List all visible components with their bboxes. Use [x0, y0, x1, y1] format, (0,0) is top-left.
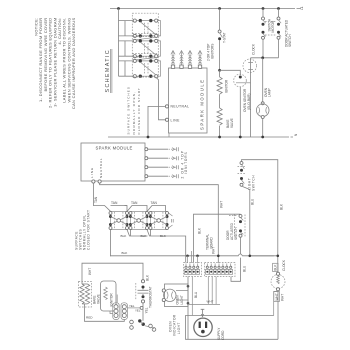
surface burner switch S2: [119, 39, 161, 58]
svg-text:VALVE: VALVE: [230, 118, 234, 128]
connector strip P1: [113, 303, 119, 320]
svg-text:SPARK MODULE: SPARK MODULE: [96, 146, 133, 151]
svg-text:LINE: LINE: [90, 167, 94, 178]
junction dot oven branch: [218, 69, 221, 72]
thermostat (lower): [136, 280, 149, 321]
svg-text:IGNITOR: IGNITOR: [225, 79, 229, 93]
svg-text:TAN: TAN: [94, 196, 98, 203]
wire M1 top chain: [111, 206, 128, 212]
svg-text:T-STAT: T-STAT: [223, 32, 227, 43]
svg-text:BOARD: BOARD: [209, 236, 213, 248]
svg-text:LIGHT: LIGHT: [177, 322, 181, 334]
ignitor module box: [101, 281, 117, 311]
notice text block: [34, 17, 77, 109]
wire M2-M3 bottom chain: [147, 230, 167, 237]
wire BLU light switch to clock: [243, 187, 278, 258]
wire BLU door switch to terminal board: [231, 237, 246, 281]
svg-text:CLOSED FOR START: CLOSED FOR START: [137, 87, 141, 135]
junction dot L1/oven column: [218, 7, 221, 10]
wires oven light to feed: [176, 291, 188, 301]
terminal board routing: [194, 214, 219, 262]
junction dot lamp/N: [261, 136, 264, 139]
label bake valve: [92, 294, 100, 304]
svg-text:BLK: BLK: [198, 227, 202, 234]
clock motor contact: [262, 9, 275, 58]
junction dot clock-motor branch: [262, 7, 265, 10]
label oven lamp (schematic): [264, 87, 272, 97]
svg-text:BLK: BLK: [160, 234, 167, 238]
svg-text:BLU: BLU: [194, 291, 198, 298]
svg-text:BLK: BLK: [141, 234, 148, 238]
junction dot L1-left: [117, 7, 120, 10]
junction dot glo-bar/N: [239, 136, 242, 139]
junction dot door-switch branch: [277, 7, 280, 10]
svg-text:NEUTRAL: NEUTRAL: [171, 105, 190, 109]
svg-text:WHT: WHT: [88, 268, 92, 275]
svg-text:BLK: BLK: [279, 203, 283, 210]
bake valve coils: [79, 282, 92, 308]
label light switch: [247, 175, 255, 191]
wire U1 box stub to N bus: [168, 133, 170, 137]
label oven light: [176, 295, 184, 305]
wire light switch feed BLK: [242, 160, 284, 273]
door actuated switch (lower): [229, 215, 245, 238]
svg-text:CLOSED FOR START: CLOSED FOR START: [87, 209, 91, 250]
label 2 or 4 top ignitors (middle): [180, 150, 188, 178]
svg-text:CORD: CORD: [221, 330, 225, 340]
svg-text:SWITCH: SWITCH: [234, 227, 238, 240]
svg-text:CLOCK: CLOCK: [282, 259, 286, 271]
node L1 bus: [110, 6, 304, 10]
svg-text:BLU: BLU: [242, 265, 246, 272]
wire clock assembly bottom: [251, 57, 279, 59]
svg-text:NEUTRAL: NEUTRAL: [99, 158, 103, 178]
svg-text:YEL: YEL: [135, 308, 141, 312]
label oven ignitor glo-bar: [243, 88, 251, 112]
svg-text:YEL: YEL: [129, 304, 135, 308]
wire S1 to S2: [137, 37, 157, 39]
wires below connector B: [208, 277, 216, 305]
svg-text:VALVE: VALVE: [96, 294, 100, 304]
wire M1-M2 bottom chain: [127, 230, 148, 237]
svg-text:LINE: LINE: [171, 118, 181, 122]
pin LINE of U1: [165, 118, 180, 122]
junction dot BLK/conn1b: [196, 255, 199, 258]
wire branch to glo-bar: [220, 70, 241, 75]
oven light box: [162, 284, 188, 307]
wire conn to plug area: [192, 277, 198, 316]
wire BLK bus (middle): [111, 251, 274, 256]
indicator connector pins: [130, 319, 156, 331]
clock motor (lower, dashed circle): [271, 272, 285, 291]
wire left bus: [118, 9, 120, 77]
svg-text:BLK: BLK: [274, 264, 278, 271]
svg-text:WHT: WHT: [207, 300, 214, 304]
dashed enclosure switch S3: [132, 54, 158, 78]
connector block A: [184, 263, 202, 277]
svg-text:CAN CAUSE IMPROPER AND DANGERO: CAN CAUSE IMPROPER AND DANGEROUS: [71, 17, 76, 109]
connector strip P2: [121, 303, 127, 320]
thermostat switch T-STAT: [218, 30, 226, 43]
junction dot neutral/N: [147, 136, 150, 139]
surface burner switch S1: [119, 19, 161, 38]
junction dot oven column/N: [218, 136, 221, 139]
wire BLK bake bus top: [82, 263, 143, 284]
wire lamp feed from connector: [187, 277, 189, 340]
supply cord box: [186, 316, 279, 340]
wire glo-bar to N bus: [250, 83, 252, 137]
spark module U1 (top): [169, 68, 208, 133]
spark module U2 (middle): [81, 143, 145, 181]
igniter output pins of U2: [145, 148, 148, 178]
label oven indicator light: [168, 314, 180, 336]
pin NEUTRAL of U2: [98, 180, 101, 183]
svg-text:(GLO-BAR): (GLO-BAR): [247, 94, 251, 110]
wire door switch feed: [218, 213, 240, 215]
wire WHT from U2 neutral to terminal board: [100, 183, 224, 263]
label 2 or 4 top ignitors (top): [206, 44, 214, 61]
dashed enclosure switch S1: [132, 13, 158, 37]
wire M3 bottom to connector: [167, 236, 186, 263]
wire M3 right stubs: [169, 213, 174, 228]
svg-text:THERMOSTAT: THERMOSTAT: [149, 286, 153, 308]
wire YEL to thermostat: [128, 304, 149, 314]
node N bus: [108, 133, 298, 137]
junction dot lamp branch: [261, 56, 264, 59]
resistor bake valve (schematic): [217, 108, 234, 137]
svg-text:CLOCK: CLOCK: [252, 43, 256, 55]
label surface switches (top): [127, 86, 142, 134]
surface switch unit M1 (middle): [109, 212, 129, 230]
wire WHT lower horizontal: [188, 300, 220, 305]
wire glo-bar B to N bus: [239, 87, 241, 137]
svg-text:SPARK MODULE: SPARK MODULE: [200, 78, 205, 130]
svg-text:SWITCH: SWITCH: [251, 175, 255, 191]
svg-text:WHT: WHT: [281, 294, 285, 301]
wire stack to spark module line: [156, 78, 165, 120]
svg-text:WHT: WHT: [275, 293, 279, 300]
wire M1 bottom to BLK drop: [110, 230, 112, 257]
igniter symbols (middle): [148, 147, 179, 178]
wire t-stat to junction: [219, 40, 221, 70]
surface switch unit M3 (middle): [149, 212, 169, 230]
wire oven column upper: [219, 9, 221, 31]
junction dot lamp feed lower: [187, 302, 190, 305]
igniter outputs of U1 (top): [171, 51, 202, 69]
label door actuated switch (lower): [226, 222, 238, 240]
svg-text:LAMP: LAMP: [268, 88, 272, 97]
wire M1-M2 top chain: [125, 206, 148, 212]
wire U1 neutral to N bus: [148, 106, 166, 137]
svg-text:SWITCH: SWITCH: [288, 34, 292, 47]
junction dot BLU/BLK: [277, 255, 280, 258]
oven lamp (schematic): [256, 102, 269, 137]
dashed circle oven ignitor element: [243, 58, 257, 83]
svg-text:TAN: TAN: [131, 201, 138, 205]
svg-text:SCHEMATIC: SCHEMATIC: [105, 49, 111, 93]
wire WHT from clock down: [274, 291, 285, 339]
surface switch unit M2 (middle): [129, 212, 149, 230]
wire ignitor stub: [110, 295, 117, 314]
junction dot BLK/WHT cross: [217, 255, 220, 258]
svg-text:IGNITORS: IGNITORS: [210, 44, 214, 59]
svg-text:MOTOR: MOTOR: [271, 20, 275, 33]
svg-text:IGNITORS: IGNITORS: [184, 151, 188, 174]
wire TAN from U2 line: [93, 183, 110, 211]
svg-text:RED: RED: [86, 316, 93, 320]
svg-text:TAN: TAN: [111, 201, 118, 205]
wire M2-M3 top chain: [147, 206, 166, 212]
label supply cord: [217, 327, 225, 340]
connector block B: [205, 263, 236, 277]
junction dot lamp feed upper: [187, 285, 190, 288]
wire stub conn1-a: [187, 256, 189, 263]
svg-text:NORMALLY OPEN,: NORMALLY OPEN,: [132, 91, 136, 135]
svg-text:SURFACE SWITCHES: SURFACE SWITCHES: [127, 86, 131, 134]
dashed enclosure switch S2: [132, 34, 158, 58]
wire lamp feed: [262, 58, 264, 102]
door actuated switch (schematic): [265, 9, 292, 58]
junction dot BLK/conn1: [186, 255, 189, 258]
wire S2 to S3: [137, 58, 157, 60]
oven ignitor glo-bar (dashed circle with sensor dot): [234, 74, 251, 87]
resistor oven ignitor: [217, 70, 229, 108]
wire RED: [85, 304, 125, 321]
label SCHEMATIC: [105, 49, 112, 93]
supply cord plug: [194, 318, 212, 336]
ground pin arrow: [201, 309, 205, 316]
svg-text:BLU: BLU: [251, 198, 255, 205]
svg-text:TAN: TAN: [151, 201, 158, 205]
pin NEUTRAL of U1: [165, 105, 189, 109]
svg-text:BLK: BLK: [146, 274, 150, 281]
svg-text:BLK: BLK: [121, 234, 128, 238]
svg-text:WHT: WHT: [219, 201, 223, 208]
svg-text:BLK: BLK: [122, 251, 129, 255]
pin LINE of U2: [92, 180, 95, 183]
light switch: [238, 162, 246, 187]
wire stub conn1-b: [192, 251, 198, 263]
surface burner switch S3: [119, 59, 161, 78]
svg-text:L1: L1: [300, 6, 304, 10]
label BLK box (clock feed): [273, 263, 278, 271]
label surface switches (middle): [75, 209, 91, 250]
